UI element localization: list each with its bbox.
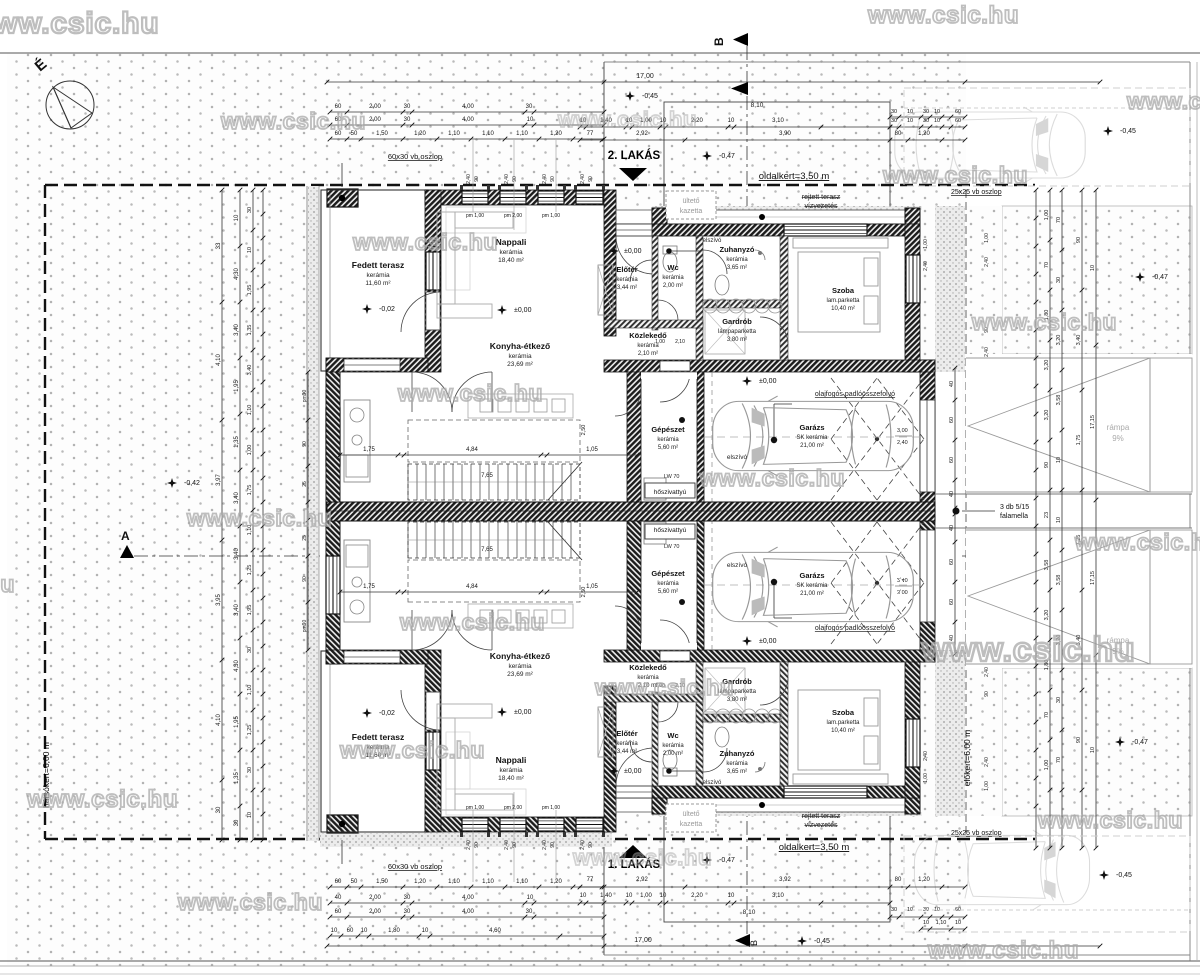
svg-text:SK kerámia: SK kerámia: [796, 583, 828, 589]
svg-text:lam.parketta: lam.parketta: [826, 298, 860, 304]
svg-text:90: 90: [474, 842, 480, 848]
svg-text:60: 60: [949, 559, 955, 565]
top border line: [0, 52, 1200, 54]
svg-text:17,15: 17,15: [1090, 571, 1096, 585]
svg-text:1,95: 1,95: [247, 285, 253, 296]
svg-text:www.csic.hu: www.csic.hu: [1126, 88, 1200, 114]
svg-text:70: 70: [1044, 262, 1050, 268]
svg-text:1,75: 1,75: [247, 485, 253, 496]
svg-text:pm 2,00: pm 2,00: [504, 805, 522, 811]
svg-text:2,40: 2,40: [466, 174, 472, 184]
elevation mark -0,47: [702, 855, 712, 865]
svg-text:SK kerámia: SK kerámia: [796, 435, 828, 441]
svg-text:kazetta: kazetta: [680, 821, 703, 828]
svg-text:1,40: 1,40: [600, 893, 612, 899]
svg-text:1,00: 1,00: [640, 893, 652, 899]
svg-text:50: 50: [351, 879, 358, 885]
svg-text:10,40 m²: 10,40 m²: [831, 306, 855, 312]
ramp bottom: [966, 530, 1192, 664]
svg-text:1,10: 1,10: [482, 879, 494, 885]
svg-text:25: 25: [302, 535, 308, 541]
svg-text:2,00: 2,00: [369, 104, 381, 110]
svg-text:1,25: 1,25: [247, 565, 253, 576]
svg-text:4,10: 4,10: [216, 354, 222, 366]
svg-text:±0,00: ±0,00: [624, 248, 642, 255]
svg-text:10: 10: [934, 118, 940, 124]
building footprint: [308, 186, 319, 841]
wc fixtures: [663, 252, 677, 272]
ramp top: [966, 358, 1192, 492]
svg-text:90: 90: [512, 842, 518, 848]
svg-text:kerámia: kerámia: [726, 257, 748, 263]
elevation mark -0,02: [362, 708, 372, 718]
svg-text:10: 10: [923, 920, 929, 926]
left vertical chains: [221, 190, 223, 840]
svg-text:3,40: 3,40: [234, 548, 240, 560]
svg-text:1,10: 1,10: [247, 685, 253, 696]
svg-text:25x25 vb oszlop: 25x25 vb oszlop: [951, 189, 1002, 196]
svg-text:1,00: 1,00: [923, 239, 929, 249]
svg-text:pm 1,00: pm 1,00: [542, 213, 560, 219]
svg-text:2,40: 2,40: [984, 257, 990, 267]
svg-text:3,20: 3,20: [1044, 410, 1050, 421]
svg-text:LW 70: LW 70: [664, 474, 680, 480]
svg-text:www.csic.hu: www.csic.hu: [699, 465, 845, 491]
svg-text:2,40: 2,40: [984, 347, 990, 357]
svg-text:Zuhanyzó: Zuhanyzó: [720, 245, 755, 254]
svg-text:1,10: 1,10: [516, 131, 528, 137]
svg-text:-0,02: -0,02: [379, 710, 395, 717]
wc vent dot: [666, 248, 672, 254]
svg-text:90: 90: [302, 441, 308, 447]
svg-text:30: 30: [234, 819, 240, 826]
inner plot rectangle 8,10: [664, 102, 890, 922]
svg-text:1,75: 1,75: [363, 447, 375, 453]
elevation mark -0,02: [362, 304, 372, 314]
svg-text:2,00: 2,00: [369, 909, 381, 915]
svg-text:oldalkert=3,50 m: oldalkert=3,50 m: [779, 842, 850, 853]
svg-text:60: 60: [335, 879, 342, 885]
svg-text:lámpaparketta: lámpaparketta: [718, 329, 757, 335]
terrace bottom wall with steps opening: [326, 358, 428, 372]
svg-text:www.csic.hu: www.csic.hu: [397, 380, 543, 406]
svg-text:3,10: 3,10: [772, 893, 784, 899]
svg-text:5,60 m²: 5,60 m²: [658, 445, 678, 451]
svg-text:www.csic.hu: www.csic.hu: [220, 108, 366, 134]
svg-text:2,40: 2,40: [504, 840, 510, 850]
svg-text:10: 10: [907, 118, 913, 124]
svg-text:Szoba: Szoba: [832, 708, 855, 717]
svg-text:2,40: 2,40: [504, 174, 510, 184]
svg-text:4,00: 4,00: [462, 909, 474, 915]
svg-text:pm90: pm90: [302, 620, 308, 633]
svg-text:Wc: Wc: [667, 731, 678, 740]
right neighbour frame: [1189, 62, 1191, 961]
gardrob shelves: [705, 310, 745, 354]
neighbour garage bottom-right: [904, 836, 1190, 932]
elevation mark ±0,00: [609, 246, 619, 256]
svg-text:elszívó: elszívó: [727, 454, 748, 461]
svg-text:www.csic.hu: www.csic.hu: [0, 571, 15, 597]
elevation mark -0,42: [167, 478, 177, 488]
interior dim lines kitchen: [340, 454, 637, 456]
svg-text:pm 1,00: pm 1,00: [466, 805, 484, 811]
svg-text:10: 10: [934, 109, 940, 115]
svg-text:kerámia: kerámia: [366, 272, 390, 279]
svg-text:www.csic.hu: www.csic.hu: [0, 7, 159, 40]
stairs: [408, 464, 571, 500]
elevation mark ±0,00: [742, 636, 752, 646]
svg-text:17,15: 17,15: [1090, 415, 1096, 429]
svg-text:www.csic.hu: www.csic.hu: [594, 675, 734, 700]
svg-text:23: 23: [1044, 512, 1050, 518]
svg-text:70: 70: [1044, 712, 1050, 718]
svg-text:1,95: 1,95: [247, 605, 253, 616]
svg-text:30: 30: [526, 909, 533, 915]
svg-text:www.csic.hu: www.csic.hu: [352, 229, 498, 255]
svg-text:90: 90: [984, 691, 990, 697]
kitchen counter: [344, 400, 370, 482]
svg-text:3,40: 3,40: [1076, 335, 1082, 346]
svg-text:vízvezetés: vízvezetés: [804, 203, 838, 210]
entry cabinet: [598, 265, 613, 315]
svg-text:oldalkert=3,50 m: oldalkert=3,50 m: [759, 171, 830, 182]
svg-text:40: 40: [949, 491, 955, 497]
svg-text:Gardrób: Gardrób: [722, 317, 752, 326]
svg-text:LW 70: LW 70: [664, 544, 680, 550]
svg-text:2,40: 2,40: [923, 751, 929, 761]
svg-text:30: 30: [247, 647, 253, 653]
ramp area: [966, 354, 1192, 494]
svg-text:3,44 m²: 3,44 m²: [617, 285, 637, 291]
left kitchen wall: [326, 358, 340, 650]
svg-text:3,20: 3,20: [1044, 610, 1050, 621]
svg-text:3,44 m²: 3,44 m²: [617, 749, 637, 755]
svg-text:lam.parketta: lam.parketta: [826, 720, 860, 726]
svg-text:2,40: 2,40: [897, 440, 908, 446]
section line B: [746, 46, 748, 934]
svg-text:21,00 m²: 21,00 m²: [800, 443, 824, 449]
svg-text:17,00: 17,00: [634, 937, 652, 944]
svg-text:hőszivattyú: hőszivattyú: [654, 489, 687, 496]
svg-text:60: 60: [335, 909, 342, 915]
interior partitions: [652, 236, 658, 330]
svg-text:3,40: 3,40: [234, 324, 240, 336]
top-left chains: [330, 111, 604, 113]
svg-text:1,20: 1,20: [918, 877, 930, 883]
neighbour garage top-right: [904, 88, 1190, 186]
svg-text:10: 10: [527, 895, 534, 901]
svg-text:pm 2,00: pm 2,00: [504, 213, 522, 219]
svg-text:2,50: 2,50: [581, 425, 587, 436]
svg-text:4,30: 4,30: [234, 268, 240, 280]
elevation mark ±0,00: [497, 707, 507, 717]
svg-text:Előtér: Előtér: [616, 729, 637, 738]
svg-text:30: 30: [923, 109, 929, 115]
svg-text:8,10: 8,10: [743, 909, 756, 916]
svg-text:-0,45: -0,45: [1116, 872, 1132, 879]
svg-text:10: 10: [234, 214, 240, 221]
svg-text:10: 10: [660, 893, 667, 899]
svg-text:4,00: 4,00: [462, 895, 474, 901]
svg-text:3,00: 3,00: [897, 428, 908, 434]
garage drain X: [831, 378, 924, 500]
svg-text:pm90: pm90: [302, 390, 308, 403]
svg-text:-0,45: -0,45: [814, 938, 830, 945]
svg-text:90: 90: [302, 576, 308, 582]
right vertical chains: [1035, 190, 1037, 848]
svg-text:3,40: 3,40: [234, 492, 240, 504]
svg-text:30: 30: [247, 207, 253, 213]
svg-text:21,00 m²: 21,00 m²: [800, 591, 824, 597]
svg-text:1,35: 1,35: [247, 325, 253, 336]
svg-text:30: 30: [404, 104, 411, 110]
svg-text:2,10 m²: 2,10 m²: [638, 351, 658, 357]
column 60x30 top-left: [327, 189, 358, 207]
svg-text:www.csic.hu: www.csic.hu: [971, 309, 1117, 335]
svg-text:80: 80: [895, 877, 902, 883]
szoba bed: [793, 238, 888, 332]
svg-text:4,00: 4,00: [462, 117, 474, 123]
svg-text:10: 10: [1056, 517, 1062, 523]
svg-text:B: B: [749, 940, 759, 946]
svg-text:60x30 vb oszlop: 60x30 vb oszlop: [388, 152, 442, 161]
svg-text:kerámia: kerámia: [662, 743, 684, 749]
elevation mark ±0,00: [497, 305, 507, 315]
svg-text:30: 30: [1056, 697, 1062, 703]
svg-text:-0,47: -0,47: [1152, 274, 1168, 281]
svg-text:www.csic.hu: www.csic.hu: [1074, 529, 1200, 555]
svg-text:3,58: 3,58: [1056, 575, 1062, 586]
svg-text:90: 90: [550, 842, 556, 848]
gepeszet equipment: [644, 478, 666, 500]
svg-text:1,20: 1,20: [550, 879, 562, 885]
svg-text:70: 70: [1056, 217, 1062, 223]
svg-text:Zuhanyzó: Zuhanyzó: [720, 749, 755, 758]
svg-text:9%: 9%: [1112, 434, 1124, 443]
garage side chain: [954, 368, 956, 508]
elevation mark ±0,00: [742, 376, 752, 386]
svg-text:1,95: 1,95: [234, 380, 240, 392]
svg-text:hőszivattyú: hőszivattyú: [654, 527, 687, 534]
svg-text:olajfogós padlóösszefolyó: olajfogós padlóösszefolyó: [815, 625, 895, 632]
entry jog wall: [604, 190, 616, 336]
svg-text:18,40 m²: 18,40 m²: [498, 257, 524, 264]
svg-text:1,10: 1,10: [247, 405, 253, 416]
site background stipple: [0, 53, 966, 966]
front door opening: [616, 224, 652, 236]
svg-text:2,10: 2,10: [675, 339, 685, 345]
svg-text:1,00: 1,00: [1044, 210, 1050, 221]
svg-text:Nappali: Nappali: [496, 237, 527, 247]
svg-text:10: 10: [247, 812, 253, 818]
svg-text:10: 10: [331, 928, 338, 934]
svg-text:±0,00: ±0,00: [759, 378, 777, 385]
heat pump box: [645, 483, 695, 498]
door nappali-terrace: [426, 292, 440, 330]
svg-text:2,40: 2,40: [984, 757, 990, 767]
svg-text:2,00 m²: 2,00 m²: [663, 751, 683, 757]
svg-text:-0,45: -0,45: [1120, 128, 1136, 135]
elevation mark -0,45: [1099, 870, 1109, 880]
svg-text:3,20: 3,20: [1044, 360, 1050, 371]
svg-text:2,50: 2,50: [581, 587, 587, 598]
svg-text:1,10: 1,10: [936, 920, 947, 926]
svg-text:3,40: 3,40: [247, 365, 253, 376]
elevation mark -0,45: [797, 936, 807, 946]
elevation mark -0,45: [1103, 126, 1113, 136]
svg-text:www.csic.hu: www.csic.hu: [882, 162, 1028, 188]
svg-text:Gépészet: Gépészet: [651, 425, 685, 434]
gepeszet walls: [627, 372, 641, 505]
section line A: [134, 555, 1185, 557]
svg-text:4,10: 4,10: [216, 714, 222, 726]
svg-text:www.csic.hu: www.csic.hu: [399, 609, 545, 635]
svg-text:2,00: 2,00: [369, 117, 381, 123]
svg-text:1,75: 1,75: [363, 584, 375, 590]
interior doors: [658, 300, 678, 320]
svg-text:www.csic.hu: www.csic.hu: [1037, 807, 1183, 833]
svg-text:30: 30: [526, 104, 533, 110]
garage right wall with door: [920, 360, 935, 510]
section marker B bottom: [735, 934, 750, 947]
svg-text:23,69 m²: 23,69 m²: [507, 671, 533, 678]
svg-text:ültető: ültető: [682, 811, 699, 818]
svg-text:3,92: 3,92: [779, 877, 791, 883]
svg-text:40: 40: [949, 381, 955, 387]
top long dim 17,00: [327, 81, 1100, 83]
svg-text:kerámia: kerámia: [726, 761, 748, 767]
svg-text:1,95: 1,95: [234, 716, 240, 728]
svg-text:-0,47: -0,47: [719, 857, 735, 864]
svg-text:kerámia: kerámia: [508, 663, 532, 670]
svg-text:Konyha-étkező: Konyha-étkező: [490, 651, 550, 661]
svg-text:www.csic.hu: www.csic.hu: [921, 631, 1135, 669]
elevation mark -0,47: [1135, 272, 1145, 282]
terrace slab edge: [321, 190, 428, 371]
svg-text:3,10: 3,10: [772, 118, 784, 124]
svg-text:1,00: 1,00: [247, 445, 253, 456]
zuhanyzo fixtures: [715, 275, 729, 295]
svg-text:A: A: [121, 529, 130, 543]
svg-text:rejtett terasz: rejtett terasz: [802, 194, 841, 201]
svg-text:2,40: 2,40: [923, 261, 929, 271]
svg-text:60: 60: [949, 457, 955, 463]
svg-text:10: 10: [1090, 265, 1096, 271]
svg-text:1,10: 1,10: [482, 131, 494, 137]
svg-text:30: 30: [404, 895, 411, 901]
svg-text:kerámia: kerámia: [616, 277, 638, 283]
bottom-right chains: [580, 886, 965, 888]
svg-text:1,50: 1,50: [376, 131, 388, 137]
svg-text:10: 10: [728, 893, 735, 899]
svg-text:90: 90: [588, 176, 594, 182]
falamella band: [935, 493, 1192, 495]
svg-text:Wc: Wc: [667, 263, 678, 272]
svg-text:10: 10: [361, 928, 368, 934]
svg-text:80: 80: [895, 131, 902, 137]
bottom long dim 17,00: [327, 945, 1100, 947]
svg-text:www.csic.hu: www.csic.hu: [572, 845, 712, 870]
svg-text:90: 90: [1076, 737, 1082, 743]
svg-text:-0,45: -0,45: [642, 93, 658, 100]
svg-text:40: 40: [949, 525, 955, 531]
svg-text:kerámia: kerámia: [499, 249, 523, 256]
svg-text:1,10: 1,10: [448, 879, 460, 885]
svg-text:90: 90: [1076, 237, 1082, 243]
svg-text:60: 60: [347, 928, 354, 934]
svg-text:3,20: 3,20: [1056, 335, 1062, 346]
svg-text:±0,00: ±0,00: [759, 638, 777, 645]
svg-text:2,20: 2,20: [691, 893, 703, 899]
svg-text:-0,47: -0,47: [1132, 739, 1148, 746]
svg-text:3,58: 3,58: [1044, 560, 1050, 571]
svg-text:33: 33: [216, 242, 222, 249]
svg-text:elszívó: elszívó: [703, 780, 722, 786]
svg-text:18,40 m²: 18,40 m²: [498, 775, 524, 782]
wall terrace/nappali: [425, 190, 441, 372]
svg-text:30: 30: [891, 907, 897, 913]
nappali furniture: [437, 212, 513, 318]
svg-text:Garázs: Garázs: [799, 571, 824, 580]
svg-text:www.csic.hu: www.csic.hu: [186, 505, 332, 531]
svg-text:40: 40: [335, 895, 342, 901]
svg-text:elszívó: elszívó: [703, 238, 722, 244]
svg-text:kerámia: kerámia: [616, 741, 638, 747]
elevation mark -0,47: [702, 151, 712, 161]
bottom border lines: [0, 960, 1200, 962]
svg-text:60: 60: [949, 599, 955, 605]
svg-text:17,00: 17,00: [636, 73, 654, 80]
garage car bottom: [713, 547, 914, 627]
svg-text:-0,42: -0,42: [184, 480, 200, 487]
street car bottom-right: [914, 830, 1089, 910]
bottom-left chains: [330, 886, 604, 888]
svg-text:olajfogós padlóösszefolyó: olajfogós padlóösszefolyó: [815, 391, 895, 398]
svg-text:30: 30: [891, 118, 897, 124]
svg-text:1,35: 1,35: [234, 772, 240, 784]
svg-text:www.csic.hu: www.csic.hu: [339, 737, 485, 763]
svg-text:90: 90: [1044, 462, 1050, 468]
svg-text:3 db 5/15: 3 db 5/15: [1000, 504, 1029, 511]
svg-text:10: 10: [728, 118, 735, 124]
hidden terrace strip right wing: [616, 210, 920, 224]
svg-text:ültető: ültető: [682, 198, 699, 205]
svg-text:90: 90: [550, 176, 556, 182]
svg-text:10: 10: [907, 109, 913, 115]
svg-text:Előtér: Előtér: [616, 265, 637, 274]
svg-text:4,84: 4,84: [466, 447, 478, 453]
ultetokazetta boxes: [666, 191, 716, 219]
svg-text:30: 30: [891, 109, 897, 115]
svg-text:2,00: 2,00: [369, 895, 381, 901]
svg-text:www.csic.hu: www.csic.hu: [557, 107, 697, 132]
elevation mark -0,47: [1115, 737, 1125, 747]
svg-text:10: 10: [422, 928, 429, 934]
kitchen island dashed + chairs: [408, 420, 580, 462]
svg-text:Nappali: Nappali: [496, 755, 527, 765]
svg-text:±0,00: ±0,00: [514, 307, 532, 314]
garage entry dashes: [711, 372, 713, 505]
party wall: [327, 502, 935, 521]
garage car top: [713, 396, 914, 476]
svg-text:7,65: 7,65: [481, 473, 493, 479]
svg-text:30: 30: [404, 909, 411, 915]
svg-text:Konyha-étkező: Konyha-étkező: [490, 341, 550, 351]
svg-text:1,20: 1,20: [414, 879, 426, 885]
svg-text:2,92: 2,92: [636, 877, 648, 883]
svg-text:1,75: 1,75: [1076, 435, 1082, 446]
